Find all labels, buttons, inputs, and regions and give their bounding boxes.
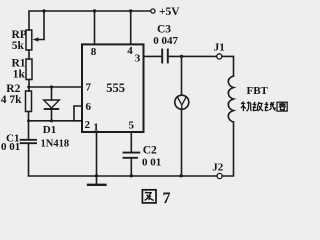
terminal +5V circle (151, 9, 155, 13)
ground (88, 176, 106, 185)
node pin8 junction (93, 9, 96, 12)
svg-text:J2: J2 (212, 162, 224, 174)
wire wiper drop (38, 11, 45, 40)
svg-text:6: 6 (86, 101, 92, 113)
resistor R2 (26, 91, 32, 112)
node lamp branch top (180, 55, 183, 58)
wire R1 to node to R2 (28, 80, 30, 92)
wire lamp branch down (181, 56, 183, 95)
node C2 bottom (130, 174, 133, 177)
node R1-R2 (27, 86, 30, 89)
lamp V1 indicator circle (175, 95, 189, 109)
terminal J1 (217, 54, 222, 59)
svg-text:8: 8 (91, 46, 97, 58)
inductor FBT primary coil (228, 76, 233, 122)
svg-text:J1: J1 (214, 42, 225, 54)
node lamp bottom (180, 174, 183, 177)
label figure caption tu (drawn) (142, 190, 156, 203)
node lower left (27, 119, 30, 122)
svg-text:7: 7 (86, 82, 92, 94)
node wiper junction (42, 9, 45, 12)
svg-text:1: 1 (93, 122, 99, 134)
svg-text:3: 3 (135, 53, 141, 65)
svg-text:0 01: 0 01 (142, 157, 161, 169)
terminal J2 (217, 173, 222, 178)
svg-text:0 01: 0 01 (1, 141, 20, 153)
lamp V mark (177, 97, 186, 110)
wire lamp to bottom rail (181, 109, 183, 176)
wire J1 to right rail (222, 56, 234, 76)
svg-text:7: 7 (163, 190, 171, 207)
svg-text:FBT: FBT (247, 85, 269, 97)
IC U1 555 box (82, 44, 144, 132)
wire node to pin 7 (29, 86, 83, 88)
wire coil to J2 corner (222, 122, 233, 176)
svg-text:4 7k: 4 7k (1, 94, 22, 106)
node diode cathode (50, 119, 53, 122)
wire lower node to pin 2 (29, 120, 83, 122)
svg-text:5: 5 (129, 120, 135, 132)
capacitor C1 (21, 140, 36, 176)
potentiometer RP (26, 30, 32, 50)
node pin1 bottom (95, 174, 98, 177)
wire RP to R1 (28, 50, 30, 59)
svg-text:0 047: 0 047 (153, 35, 178, 47)
wire pin 5 to C2 (130, 132, 132, 152)
wire pin6 jog to pin2 wire (74, 106, 82, 121)
svg-text:1k: 1k (13, 69, 26, 81)
wire pin 8 drop (94, 11, 96, 44)
svg-text:555: 555 (106, 81, 125, 95)
svg-text:1N418: 1N418 (41, 139, 70, 150)
node diode anode (50, 85, 53, 88)
wire C3 to J1 (169, 55, 217, 57)
resistor R1 (26, 59, 32, 80)
wire pin 4 drop (130, 11, 132, 44)
capacitor C2 (124, 153, 140, 176)
wire top rail (29, 11, 151, 30)
capacitor C3 (162, 50, 168, 63)
svg-text:+5V: +5V (159, 6, 180, 18)
svg-text:C2: C2 (143, 144, 157, 156)
wire R2 to lower node (28, 112, 30, 140)
node pin4 junction (129, 9, 132, 12)
svg-text:4: 4 (127, 45, 133, 57)
wire bottom rail (29, 175, 218, 177)
label chuji xianquan (primary coil) drawn strokes (241, 102, 287, 112)
svg-text:C3: C3 (157, 23, 171, 35)
svg-text:D1: D1 (43, 124, 56, 136)
wire pin 1 to ground rail (96, 132, 98, 176)
svg-text:2: 2 (85, 119, 91, 131)
wiper arrow of RP (33, 37, 39, 41)
diode D1 (44, 87, 60, 121)
svg-text:5k: 5k (12, 40, 25, 52)
wire pin 3 output (144, 55, 162, 57)
